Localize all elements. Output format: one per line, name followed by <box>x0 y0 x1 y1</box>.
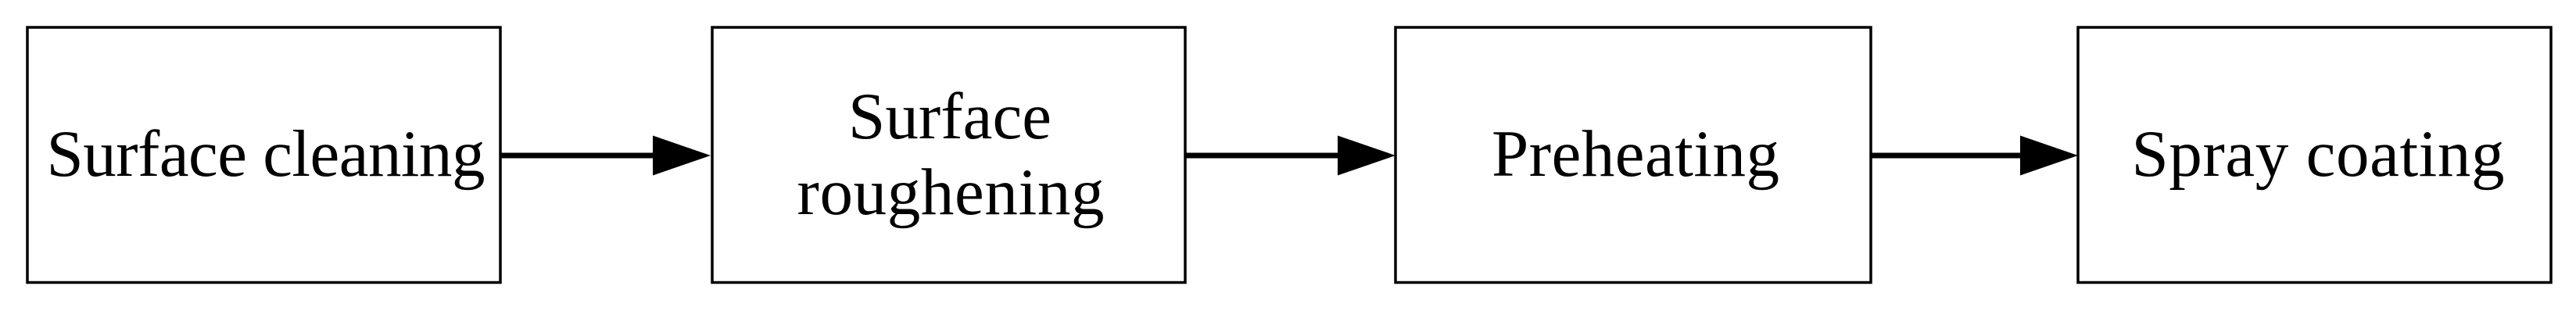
arrowhead 1 <box>653 136 711 176</box>
svg-text:Surface: Surface <box>848 80 1052 153</box>
wire: arrow 1 shaft <box>501 153 655 159</box>
svg-text:Preheating: Preheating <box>1492 117 1779 191</box>
process box 1: Surface cleaning <box>27 27 500 283</box>
svg-text:Surface cleaning: Surface cleaning <box>47 117 485 191</box>
arrowhead 2 <box>1338 136 1395 176</box>
svg-text:roughening: roughening <box>797 155 1105 229</box>
svg-text:Spray coating: Spray coating <box>2132 117 2505 191</box>
wire: arrow 2 shaft <box>1187 153 1338 159</box>
process box 2: Surface roughening <box>712 27 1185 283</box>
arrowhead 3 <box>2020 136 2078 176</box>
wire: arrow 3 shaft <box>1872 153 2020 159</box>
process box 3: Preheating <box>1395 27 1871 283</box>
process box 4: Spray coating <box>2078 27 2551 283</box>
